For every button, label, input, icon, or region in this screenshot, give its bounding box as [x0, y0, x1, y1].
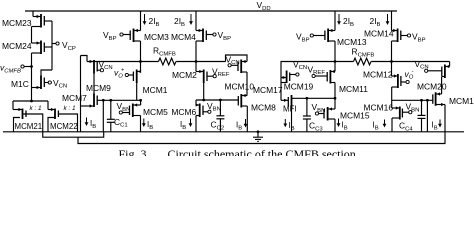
wire MCM1 drain lead with arrow — [140, 62, 142, 72]
wire bracket under MCM21-MCM22 gates — [43, 132, 104, 137]
wire MFI drain lead with arrow — [281, 99, 288, 101]
svg-text:MCM14: MCM14 — [364, 28, 394, 38]
svg-text:k : 1: k : 1 — [64, 105, 77, 112]
svg-text:MCM24: MCM24 — [2, 41, 32, 51]
terminal VCN at MCM10 — [228, 64, 231, 67]
svg-text:MFI: MFI — [283, 104, 297, 113]
wire MCM5 drain lead with arrow — [140, 100, 142, 105]
power rail VDD — [25, 10, 397, 12]
transistor MCM1 — [136, 70, 138, 84]
wire IB leg right — [426, 100, 428, 132]
svg-text:Fig. 3. Circuit schematic: Fig. 3. Circuit schematic of the CMFB se… — [119, 147, 359, 156]
node VBN bus junction 2 capacitor CC1 — [109, 99, 112, 102]
wire MCM3 drain lead with arrow — [134, 30, 141, 32]
wire MCM5 gate lead — [122, 112, 129, 114]
transistor MCM24 — [40, 41, 42, 55]
wire left output rail segment B — [176, 61, 225, 63]
wire MCM20 source to rail — [436, 104, 445, 106]
annotation IB arrow MCM15 — [338, 119, 340, 125]
svg-text:MCM19: MCM19 — [284, 82, 314, 92]
transistor MCM2 — [203, 70, 205, 84]
wire MCM2 source down to MCM8 gate bus — [203, 83, 205, 100]
node MCM6 drain junction — [202, 99, 205, 102]
node capacitor CC4 junction — [420, 99, 423, 102]
wire down to MCM21 drain — [12, 101, 14, 110]
wire MCM23 source down — [32, 26, 42, 28]
transistor MCM19 — [286, 71, 288, 84]
wire MCM7 source lead with arrow to bias leg — [81, 105, 95, 107]
transistor MCM16 — [399, 107, 401, 120]
transistor MCM21 — [22, 109, 24, 120]
wire MCM16 gate lead — [402, 111, 408, 113]
wire MCM12 source down — [392, 86, 398, 88]
wire MCM9 source to MCM7 drain — [93, 74, 95, 94]
transistor MCM4 — [202, 29, 204, 43]
wire VBN bus center — [292, 97, 336, 99]
transistor MCM22 — [54, 109, 56, 120]
svg-text:MCM4: MCM4 — [171, 32, 196, 42]
wire MCM16 drain lead with arrow — [391, 100, 393, 108]
terminal vO- output — [406, 80, 409, 83]
node IB leg right junction — [426, 99, 429, 102]
wire MCM4 source down — [196, 40, 203, 42]
terminal VCN at MCM9 — [100, 69, 103, 72]
terminal VCN at M1C — [48, 81, 51, 84]
wire MCM11 drain lead with arrow — [334, 62, 336, 72]
wire down to MCM22 drain — [47, 101, 49, 110]
node MCM3 drain on output rail — [139, 60, 142, 63]
transistor MCM5 — [132, 104, 134, 118]
terminal VREF left — [213, 75, 216, 78]
svg-text:MCM6: MCM6 — [171, 107, 196, 117]
wire MCM12 drain lead with arrow — [391, 62, 393, 77]
wire MCM2 gate lead — [207, 75, 213, 77]
wire MCM13 gate lead — [313, 35, 325, 37]
wire M1C gate lead — [44, 82, 48, 84]
wire MCM24 gate lead — [44, 46, 52, 48]
node MCM1 source junction — [139, 99, 142, 102]
wire M1C source lead with arrow — [32, 87, 42, 89]
transistor MCM6 — [199, 104, 201, 118]
wire MCM19 source stub — [281, 82, 287, 84]
wire MCM18 drain lead with arrow — [445, 66, 450, 68]
terminal VBP at MCM14 — [407, 34, 410, 37]
wire MCM19 gate lead — [290, 74, 296, 76]
svg-text:MCM10: MCM10 — [225, 81, 255, 91]
node MCM13 drain on rail — [334, 60, 337, 63]
wire MCM4 drain lead with arrow — [196, 30, 203, 32]
wire MCM23 drain to VDD — [32, 11, 34, 17]
wire MCM13 drain lead with arrow — [328, 30, 335, 32]
wire MCM18 source lead — [442, 76, 445, 78]
terminal VBN at MCM16 — [409, 111, 412, 114]
wire MCM22 drain lead with arrow — [48, 109, 55, 111]
wire MCM9 gate lead — [97, 69, 100, 71]
wire MCM8 drain lead with arrow — [241, 95, 247, 97]
wire left output rail segment A — [87, 61, 159, 63]
wire MCM14 branch from VDD — [391, 11, 393, 31]
transistor MCM11 (VREF cascode) — [329, 70, 331, 84]
transistor MCM8 — [240, 94, 242, 108]
wire MCM15 drain lead with arrow — [334, 98, 336, 109]
annotation 2IB arrow right-left — [338, 14, 340, 22]
terminal VREF right — [312, 74, 315, 77]
wire MCM24 source down to vCMFB node — [32, 52, 42, 54]
wire MCM9 drain jog over — [81, 56, 88, 62]
svg-text:MCM21: MCM21 — [15, 122, 43, 131]
current source IB bias leg — [80, 56, 82, 132]
wire MCM10 source down — [241, 71, 247, 73]
wire MCM2 drain lead with arrow — [195, 62, 197, 72]
wire MCM9 drain arrow — [90, 60, 93, 63]
wire center output rail segment A — [281, 61, 354, 63]
transistor MFI — [291, 95, 293, 109]
capacitor CC3 — [306, 98, 308, 116]
svg-text:MCM20: MCM20 — [417, 81, 447, 91]
transistor MCM9 — [93, 60, 95, 74]
transistor MCM7 — [93, 94, 95, 108]
wire gate bus to MCM8 — [196, 99, 238, 101]
wire MCM1 source down — [136, 83, 138, 100]
wire center column down — [280, 62, 282, 101]
wire MCM24 top lead with arrow — [32, 42, 42, 44]
svg-text:+: + — [121, 68, 124, 74]
ground symbol — [257, 130, 260, 133]
terminal VBP right of MCM4 — [213, 33, 216, 36]
terminal VBN at MCM6 — [208, 110, 211, 113]
wire MCM14 source down — [392, 40, 398, 42]
wire VBN bus junction down to rail — [102, 100, 104, 132]
transistor MCM18 — [444, 65, 446, 79]
wire MCM1 gate lead — [128, 74, 133, 76]
svg-text:-: - — [412, 69, 414, 75]
wire MCM21 gate down — [23, 114, 42, 132]
resistor RCMFB right — [354, 58, 371, 65]
svg-text:MCM5: MCM5 — [143, 107, 168, 117]
node MCM15 drain junction — [334, 97, 337, 100]
svg-text:MCM17: MCM17 — [253, 85, 283, 95]
wire MCM12 gate lead — [401, 81, 406, 83]
annotation IB arrow MFI — [284, 119, 286, 124]
capacitor CC4 — [421, 100, 423, 115]
svg-text:MCM2: MCM2 — [172, 70, 197, 80]
terminal VBN at MCM15 — [315, 112, 318, 115]
svg-text:M1C: M1C — [11, 79, 29, 89]
wire vCMFB to node — [24, 66, 31, 68]
node vCMFB junction — [30, 65, 33, 68]
svg-text:MCM7: MCM7 — [62, 93, 87, 103]
wire MCM10 drain lead with arrow — [241, 61, 247, 63]
node VBN bus junction 1 — [102, 99, 105, 102]
terminal VCP — [52, 43, 56, 45]
transistor MCM14 — [397, 29, 399, 43]
wire MCM20 drain up to MCM18 source — [441, 77, 443, 95]
wire MCM23 gate bus — [44, 20, 52, 22]
svg-text:MCM12: MCM12 — [363, 69, 393, 79]
wire MCM7 gate bus VBN — [97, 99, 140, 101]
wire MCM13 branch from VDD — [334, 11, 336, 31]
node bias tail junction — [30, 100, 33, 103]
wire output rail jog over VCN lead — [226, 55, 248, 62]
svg-text:k : 1: k : 1 — [30, 105, 43, 112]
annotation IB arrow bias leg — [86, 118, 88, 124]
annotation IB arrow MCM5 — [143, 119, 145, 125]
transistor MCM20 — [435, 92, 437, 106]
wire MCM6 gate lead — [203, 111, 208, 113]
resistor RCMFB left — [159, 58, 176, 65]
wire bias tail node — [13, 100, 48, 102]
node MCM4 drain on output rail — [195, 60, 198, 63]
wire MCM3 gate lead — [123, 34, 130, 36]
wire MCM14 drain lead with arrow — [392, 30, 398, 32]
svg-text:MCM23: MCM23 — [2, 18, 32, 28]
transistor MCM10 — [240, 60, 242, 74]
svg-text:MCM11: MCM11 — [339, 84, 368, 94]
wire MCM5 source to rail — [133, 115, 141, 117]
wire MCM6 drain lead with arrow — [195, 100, 197, 105]
wire M1C drain jog from VCP bus — [41, 70, 52, 76]
wire MCM12v gate lead — [315, 75, 327, 77]
svg-text:MCM22: MCM22 — [50, 122, 78, 131]
svg-text:MCM18: MCM18 — [449, 96, 474, 106]
transistor MCM3 — [133, 29, 135, 43]
wire MCM21 drain lead with arrow — [13, 109, 23, 111]
wire vCMFB node down to M1C source — [31, 67, 33, 102]
node capacitor CC2 junction — [219, 99, 222, 102]
terminal VCN at MCM18 — [425, 69, 428, 72]
wire MCM16 source to rail — [392, 117, 400, 119]
capacitor CC2 — [219, 100, 221, 116]
annotation 2IB arrow left — [144, 14, 146, 22]
transistor MCM12 (vO- input) — [397, 74, 399, 88]
wire MCM4 branch from VDD — [195, 11, 197, 31]
wire MCM3 source down — [134, 40, 141, 42]
node MCM14 drain on rail — [390, 60, 393, 63]
wire MCM10 gate lead — [231, 64, 238, 66]
svg-text:MCM9: MCM9 — [86, 83, 111, 93]
svg-text:MCM13: MCM13 — [337, 37, 367, 47]
transistor M1C — [40, 76, 42, 90]
terminal VBN at MCM5 — [119, 111, 122, 114]
svg-text:MCM8: MCM8 — [251, 102, 276, 112]
transistor MCM13 — [327, 29, 329, 43]
wire MCM3 branch from VDD — [140, 11, 142, 31]
wire MCM13 source down — [328, 40, 335, 42]
wire MCM20 drain lead with arrow — [436, 93, 442, 95]
svg-text:MCM1: MCM1 — [143, 85, 168, 95]
wire MCM11 source down to VBN bus — [330, 82, 335, 84]
terminal VCN at MCM19 — [296, 73, 299, 76]
node capacitor CC3 junction — [306, 97, 309, 100]
transistor MCM15 — [327, 107, 329, 121]
svg-text:MCM3: MCM3 — [144, 32, 169, 42]
wire MCM15 source to rail — [328, 118, 335, 120]
wire VBN bus right — [392, 99, 433, 101]
wire MCM22 gate down to long bottom wire — [58, 114, 77, 132]
wire MCM19 upper lead with arrow — [281, 77, 287, 79]
ground rail (bottom common rail) — [3, 131, 464, 133]
wire MCM8 source to rail — [241, 105, 247, 107]
wire MCM6 source to rail — [196, 115, 200, 117]
svg-text:MCM16: MCM16 — [364, 103, 394, 113]
wire MCM22 source to rail — [48, 118, 55, 132]
wire MCM4 gate lead — [206, 34, 213, 36]
capacitor CC1 — [110, 100, 112, 119]
wire MCM18 gate lead — [428, 70, 442, 72]
transistor MCM23 — [40, 14, 42, 28]
long bottom wire to right-side current source — [78, 132, 445, 144]
wire MFI source to rail — [291, 108, 293, 132]
wire MCM14 gate lead — [401, 35, 408, 37]
wire center output rail segment B — [371, 61, 449, 63]
wire MCM15 gate lead — [319, 113, 324, 115]
wire MCM21 source to rail — [14, 118, 21, 132]
